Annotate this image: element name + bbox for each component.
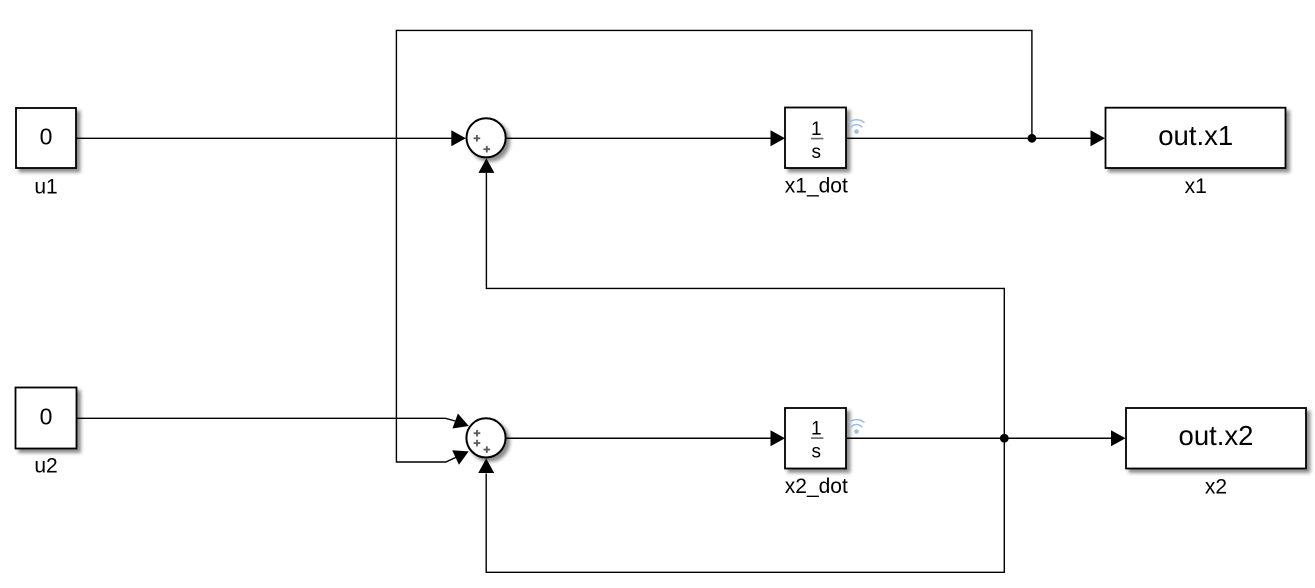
svg-text:x2: x2 — [1205, 476, 1227, 499]
svg-text:out.x1: out.x1 — [1158, 120, 1233, 151]
svg-text:s: s — [812, 442, 822, 463]
svg-text:u1: u1 — [34, 176, 57, 199]
svg-text:0: 0 — [40, 123, 53, 149]
svg-text:out.x2: out.x2 — [1179, 420, 1254, 451]
svg-text:s: s — [812, 142, 822, 163]
svg-text:0: 0 — [40, 403, 53, 429]
svg-text:x1: x1 — [1185, 175, 1207, 198]
svg-text:x2_dot: x2_dot — [785, 475, 848, 498]
svg-text:1: 1 — [811, 419, 822, 440]
svg-text:1: 1 — [811, 119, 822, 140]
svg-text:u2: u2 — [34, 455, 57, 478]
svg-text:x1_dot: x1_dot — [785, 175, 848, 198]
